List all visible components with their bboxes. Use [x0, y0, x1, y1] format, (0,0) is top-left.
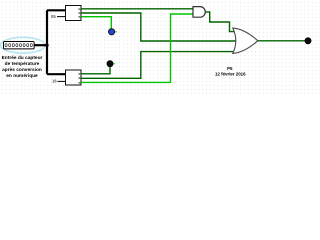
LED D2 port tick — [113, 63, 115, 65]
wire constant C2 to U2 input B — [58, 80, 66, 82]
wire U1 output gt (0) to AND gate — [81, 8, 193, 10]
svg-text:12 février 2016: 12 février 2016 — [215, 72, 246, 77]
wire AND gate G1 output (0) to OR gate input 1 — [206, 12, 236, 32]
input pin P1 (8-bit, value 00000000) — [4, 42, 35, 49]
svg-text:16: 16 — [52, 78, 57, 83]
LED D1 (lit, blue) — [109, 29, 115, 35]
wire bus vertical trunk — [46, 10, 48, 74]
wire U2 output lt (1) to AND gate input 2 — [81, 14, 193, 82]
wire U1 output eq (0) to OR gate input 2 — [81, 13, 237, 41]
comparator U2 — [66, 70, 82, 85]
comparator U1 — [66, 6, 82, 21]
output pin P2 (value 0) — [305, 38, 311, 44]
svg-text:de température: de température — [5, 61, 40, 67]
LED D2 (off, dark) — [107, 61, 113, 67]
svg-text:05: 05 — [51, 14, 56, 19]
wire bus from pin to node — [34, 44, 47, 46]
svg-text:en numérique: en numérique — [6, 73, 38, 79]
wire bus to comparator U1 input A — [47, 9, 66, 11]
svg-text:P5: P5 — [227, 66, 233, 71]
label of input pin — [2, 55, 43, 79]
wire constant C1 to U1 input B — [57, 16, 66, 18]
node junction at bus split — [45, 44, 48, 47]
svg-text:après conversion: après conversion — [2, 67, 42, 73]
LED D1 port tick — [115, 31, 117, 33]
wire bus to comparator U2 input A — [47, 73, 66, 75]
svg-text:Entrée du capteur: Entrée du capteur — [2, 55, 43, 61]
selection halo around input pin — [1, 37, 46, 53]
wire U1 output lt (1) to LED D1 — [81, 17, 111, 29]
AND gate G1 — [193, 7, 205, 18]
wire U2 output eq (0) to OR gate input 3 — [81, 52, 237, 79]
wire U2 output gt (0) to LED D2 — [81, 67, 110, 74]
wire OR gate G2 output (0) to output pin — [258, 40, 305, 42]
OR gate G2 — [233, 28, 258, 53]
schematic title text — [215, 66, 246, 77]
